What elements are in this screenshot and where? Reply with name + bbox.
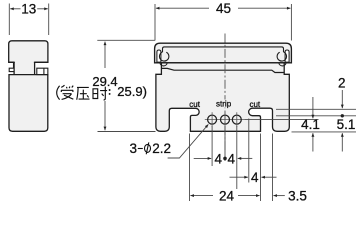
dimension 24: [190, 195, 259, 197]
svg-text:2: 2: [338, 76, 346, 91]
svg-text:cut: cut: [189, 100, 200, 109]
dimension 4 (finger width): [230, 176, 277, 178]
centerline (dash-dot): [224, 34, 226, 151]
side view cap bottom edge: [9, 61, 48, 63]
left hook of lever: [159, 47, 168, 66]
line C: hole center: [244, 119, 318, 121]
svg-text:2.2: 2.2: [152, 141, 171, 156]
right side extension lines: [244, 109, 356, 132]
svg-text:5.1: 5.1: [337, 117, 356, 132]
side view body: [9, 75, 48, 132]
phi symbol: [145, 142, 151, 154]
line D: body bottom: [292, 131, 356, 133]
svg-text:4: 4: [228, 151, 236, 166]
hole 3: [232, 115, 241, 124]
line B: finger bottom: [276, 115, 356, 117]
front cap (lever): [155, 43, 292, 63]
front body: [156, 63, 289, 132]
hole crosshair horizontal: [205, 119, 245, 121]
时: [93, 87, 107, 100]
side view right shoulder (white boxes): [37, 68, 48, 74]
leader 3-phi2.2: [168, 124, 209, 158]
lever latch channel left (white slot): [157, 50, 161, 62]
svg-text:strip: strip: [216, 100, 232, 109]
dimension 29.4 (height, with pressed note): [97, 40, 155, 131]
svg-text:24: 24: [219, 189, 235, 204]
svg-text:4: 4: [215, 151, 223, 166]
bottom extension lines: [190, 119, 273, 202]
svg-text:25.9): 25.9): [117, 84, 147, 99]
fullwidth colon: [109, 90, 111, 94]
dot terminator on line B: [341, 114, 344, 117]
svg-text:3.5: 3.5: [288, 189, 307, 204]
svg-text:13: 13: [21, 2, 36, 17]
hole 1: [208, 115, 217, 124]
svg-text:3: 3: [130, 141, 138, 156]
dimension 13 (side view width): [9, 4, 48, 36]
dimension 4 4 (hole pitch): [194, 157, 253, 159]
dimension 45 (top): [155, 4, 291, 41]
lever latch channel right (white slot): [285, 50, 289, 62]
dimension 5.1 arrow: [341, 133, 343, 151]
dimension 4.1 arrows: [312, 97, 314, 118]
受: [61, 85, 73, 99]
svg-text:45: 45: [216, 1, 231, 16]
svg-text:4: 4: [251, 170, 259, 185]
side view left step box (white): [9, 62, 13, 71]
line A: slot top edge: [276, 108, 356, 110]
svg-text:cut: cut: [249, 100, 260, 109]
right hook of lever: [277, 47, 286, 66]
body top edge chamfer lines: [161, 68, 284, 72]
压: [77, 87, 90, 99]
(: [57, 86, 60, 100]
side view cap: [9, 41, 48, 63]
cap inner top contour: [169, 46, 278, 48]
note (受压时: 25.9) drawn with vector CJK glyphs: [57, 85, 110, 100]
svg-text:4.1: 4.1: [301, 117, 320, 132]
side view neck: [15, 61, 34, 74]
hole 2: [221, 115, 230, 124]
dimension 3.5: [273, 195, 284, 197]
